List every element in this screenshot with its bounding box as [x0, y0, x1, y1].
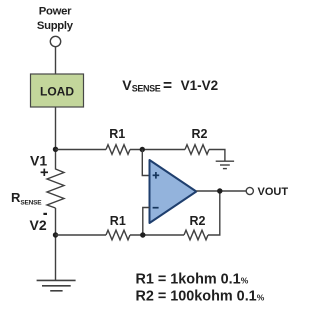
- svg-text:Power: Power: [39, 5, 72, 17]
- wire: RSENSE to ground: [55, 208, 57, 280]
- VOUT terminal: [246, 187, 253, 194]
- op-amp + input mark: [153, 172, 160, 179]
- op-amp U1: [150, 160, 197, 223]
- ground (main): [37, 280, 76, 290]
- wire: terminal to LOAD: [55, 47, 57, 74]
- op-amp - input mark: [153, 207, 159, 209]
- svg-text:R1: R1: [109, 127, 125, 141]
- wire: node A to op-amp + input: [142, 150, 149, 176]
- svg-text:LOAD: LOAD: [40, 84, 74, 98]
- resistor R1 (bottom): [106, 230, 130, 240]
- wire: R1 to R2 (bottom): [130, 234, 184, 236]
- svg-text:V2: V2: [30, 217, 47, 233]
- wire: R2 to ground (top right): [209, 150, 225, 162]
- polarity + mark: [41, 169, 48, 176]
- load block: [31, 74, 84, 107]
- svg-text:V1: V1: [30, 153, 47, 169]
- node OUT junction dot: [217, 188, 222, 193]
- wire: node V1 to R1 (top): [56, 149, 107, 151]
- wire: op-amp output: [196, 190, 246, 192]
- ground (top right, small): [216, 161, 234, 168]
- resistor RSENSE: [47, 169, 64, 208]
- node V2 junction dot: [53, 232, 58, 237]
- svg-text:Supply: Supply: [37, 20, 74, 32]
- node B junction dot (op-amp - branch): [140, 232, 145, 237]
- wire: node V2 to R1 (bottom): [56, 234, 107, 236]
- label Power Supply: [37, 5, 74, 32]
- svg-text:R2 = 100kohm 0.1%: R2 = 100kohm 0.1%: [136, 289, 265, 305]
- node A junction dot (op-amp + branch): [140, 147, 145, 152]
- resistor R2 (top): [185, 145, 209, 155]
- svg-text:R2: R2: [192, 127, 208, 141]
- svg-text:VOUT: VOUT: [258, 186, 289, 198]
- wire: R1 to R2 (top): [130, 149, 185, 151]
- svg-text:R1 = 1kohm 0.1%: R1 = 1kohm 0.1%: [136, 272, 249, 288]
- svg-text:R1: R1: [110, 214, 126, 228]
- node V1 junction dot: [53, 147, 58, 152]
- polarity - mark: [43, 213, 47, 215]
- svg-text:R2: R2: [190, 214, 206, 228]
- wire: R2 feedback up to output node: [208, 191, 220, 235]
- resistor R2 (bottom, feedback): [184, 230, 208, 240]
- wire: node B to op-amp - input: [143, 208, 150, 236]
- resistor R1 (top): [106, 145, 130, 155]
- wire: LOAD to node V1: [55, 107, 57, 170]
- power supply terminal: [50, 36, 60, 46]
